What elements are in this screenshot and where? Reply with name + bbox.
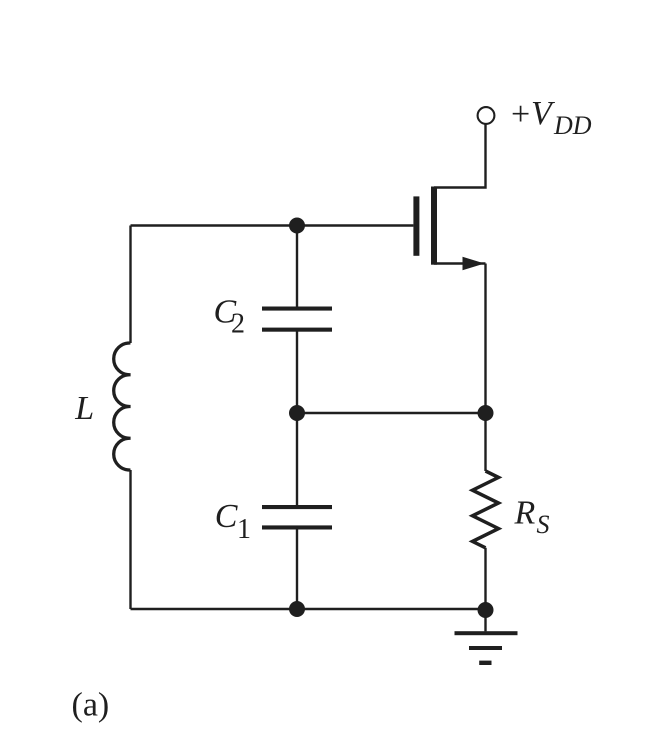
svg-text:V: V <box>531 95 556 132</box>
svg-text:2: 2 <box>231 309 245 340</box>
svg-text:+: + <box>511 96 530 133</box>
svg-text:S: S <box>537 510 550 539</box>
svg-text:C: C <box>215 498 238 535</box>
svg-text:1: 1 <box>237 514 251 545</box>
svg-text:L: L <box>74 390 94 427</box>
svg-text:R: R <box>514 494 536 531</box>
svg-text:DD: DD <box>553 111 592 140</box>
svg-text:(a): (a) <box>72 687 110 724</box>
